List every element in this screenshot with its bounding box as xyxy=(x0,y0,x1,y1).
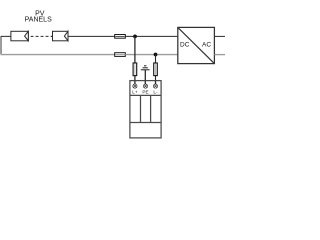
PV module PV1 xyxy=(11,31,28,41)
SPD internal top separator xyxy=(130,94,161,96)
fuse F3 (SPD L+ branch) xyxy=(133,63,137,76)
SPD module divider 2 xyxy=(150,95,152,122)
terminal L+ (circle with X) xyxy=(133,84,137,88)
svg-text:L-: L- xyxy=(153,89,158,94)
inverter U2 box xyxy=(178,27,215,63)
wire L+ from PV2 to fuse F1 xyxy=(68,35,115,37)
inverter diagonal xyxy=(178,27,215,63)
fuse F4 (SPD L- branch) xyxy=(154,63,158,76)
wire drop L+ to SPD xyxy=(134,36,136,84)
wire stub L+ terminal xyxy=(134,81,136,85)
SPD U1 outer box xyxy=(130,81,161,138)
ground (earth symbol above PE, inverted) xyxy=(141,66,150,70)
SPD module divider 1 xyxy=(140,95,142,122)
wire stub PE terminal xyxy=(144,81,146,85)
svg-text:PANELS: PANELS xyxy=(25,17,52,24)
fuse F1 (L+ conductor) xyxy=(115,35,126,39)
wire dashed string link between PV1 and PV2 xyxy=(31,35,53,37)
terminal PE (circle with X) xyxy=(143,84,147,88)
SPD internal bottom separator xyxy=(130,122,161,124)
svg-text:PE: PE xyxy=(142,89,148,94)
wire L- bottom run to fuse F2 xyxy=(1,54,115,56)
node junction on L- xyxy=(154,53,158,57)
wire L- from fuse F2 to inverter xyxy=(125,54,178,56)
wire L- stub from panel PV1 left terminal xyxy=(1,35,11,37)
wire AC output bottom xyxy=(214,54,225,56)
terminal L- (circle with X) xyxy=(153,84,157,88)
wire L- left vertical drop xyxy=(0,36,2,55)
svg-text:AC: AC xyxy=(202,42,211,49)
svg-text:L+: L+ xyxy=(132,89,138,94)
wire AC output top xyxy=(214,35,225,37)
wire stub L- terminal xyxy=(155,81,157,85)
svg-text:DC: DC xyxy=(180,42,190,49)
wire drop L- to SPD xyxy=(155,55,157,85)
wire PE stem from ground to SPD xyxy=(144,70,146,85)
fuse F2 (L- conductor) xyxy=(115,53,126,57)
wire L+ from fuse F1 to inverter xyxy=(125,35,178,37)
node junction on L+ xyxy=(133,35,137,39)
PV module PV2 xyxy=(53,31,69,41)
